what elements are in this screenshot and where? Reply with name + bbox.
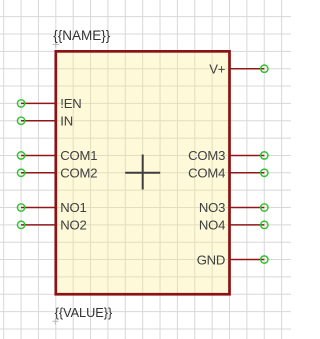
svg-text:!EN: !EN (60, 96, 81, 111)
pin NO4 (199, 218, 268, 233)
text anchor cross for {{NAME}} (53, 41, 59, 47)
svg-text:COM3: COM3 (188, 148, 225, 163)
text anchor cross for {{VALUE}} (52, 318, 58, 324)
pin V+ (209, 61, 268, 76)
pin COM4 (188, 166, 268, 181)
pin IN (17, 113, 73, 128)
pin COM3 (188, 148, 268, 163)
pin NO3 (199, 200, 268, 215)
svg-text:NO1: NO1 (60, 200, 86, 215)
svg-text:COM2: COM2 (60, 166, 97, 181)
origin crosshair (125, 155, 160, 190)
svg-text:NO4: NO4 (199, 218, 225, 233)
pin NO2 (17, 218, 86, 233)
svg-text:GND: GND (197, 252, 226, 267)
svg-text:{{VALUE}}: {{VALUE}} (55, 306, 113, 320)
svg-text:{{NAME}}: {{NAME}} (53, 28, 111, 43)
pin GND (197, 252, 268, 267)
pin COM2 (17, 166, 97, 181)
pin !EN (17, 96, 81, 111)
svg-text:COM1: COM1 (60, 148, 97, 163)
pin NO1 (17, 200, 86, 215)
svg-text:IN: IN (60, 113, 73, 128)
svg-text:NO3: NO3 (199, 200, 225, 215)
svg-text:V+: V+ (209, 61, 225, 76)
svg-text:COM4: COM4 (188, 166, 225, 181)
pin COM1 (17, 148, 97, 163)
symbol body U1 outline (56, 51, 230, 294)
svg-text:NO2: NO2 (60, 218, 86, 233)
